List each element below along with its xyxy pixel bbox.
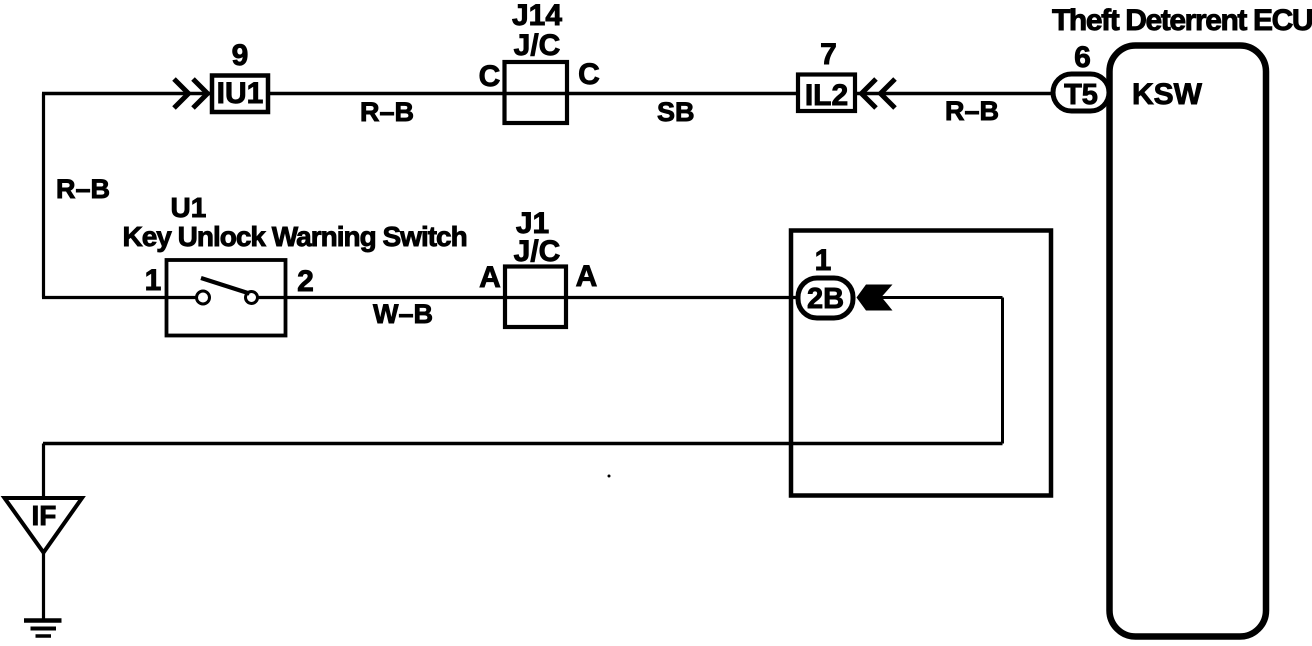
terminal T5 oval — [1053, 74, 1109, 111]
connector J14 J/C box — [505, 0, 568, 123]
wire bottom horizontal y=443 — [43, 442, 1003, 445]
svg-text:C: C — [578, 58, 600, 91]
svg-text:Key Unlock Warning Switch: Key Unlock Warning Switch — [123, 221, 467, 252]
switch lever — [201, 278, 250, 294]
svg-text:J/C: J/C — [514, 235, 561, 268]
connector IU1 box — [212, 76, 268, 113]
ground symbol — [24, 621, 62, 637]
female connector arrow at 2B — [857, 285, 893, 311]
wire middle horizontal W-B from switch pin 2 to 2B — [257, 296, 796, 299]
svg-text:IU1: IU1 — [217, 77, 264, 110]
wire left vertical R-B x=43 — [42, 94, 45, 298]
svg-text:R–B: R–B — [360, 97, 414, 127]
svg-text:R–B: R–B — [56, 174, 110, 204]
connector IL2 box — [798, 75, 855, 113]
shield box around connector 2B — [791, 231, 1051, 496]
svg-text:C: C — [479, 60, 501, 93]
svg-text:1: 1 — [815, 244, 832, 277]
scan speck — [608, 475, 611, 478]
terminal 2B oval — [798, 278, 853, 318]
svg-text:SB: SB — [657, 97, 695, 127]
svg-text:7: 7 — [820, 38, 837, 71]
svg-text:R–B: R–B — [945, 96, 999, 126]
wire middle horizontal into switch pin 1 — [42, 296, 197, 299]
svg-text:Theft Deterrent ECU: Theft Deterrent ECU — [1052, 4, 1312, 37]
wire from 2B arrow to inner corner — [860, 296, 1003, 299]
Theft Deterrent ECU block — [1052, 4, 1312, 637]
svg-text:6: 6 — [1074, 41, 1091, 74]
switch contact left — [197, 291, 210, 304]
svg-text:A: A — [479, 261, 501, 294]
switch U1 Key Unlock Warning Switch — [123, 192, 467, 336]
svg-text:2B: 2B — [807, 283, 844, 315]
wire down-left vertical to IF triangle — [42, 444, 45, 499]
svg-text:U1: U1 — [171, 192, 207, 223]
svg-text:W–B: W–B — [373, 299, 433, 329]
female wire harness arrows out of IL2 — [862, 79, 896, 108]
male wire harness arrows into IU1 — [174, 79, 208, 108]
svg-text:J/C: J/C — [514, 29, 561, 62]
svg-text:1: 1 — [145, 264, 162, 297]
wire triangle apex to ground — [42, 552, 45, 620]
wire top horizontal R-B/SB run y=94 — [42, 92, 1051, 95]
svg-text:IF: IF — [32, 500, 57, 531]
wire inner vertical x=1002 — [1001, 298, 1004, 444]
svg-text:A: A — [576, 260, 598, 293]
svg-text:T5: T5 — [1064, 79, 1098, 111]
ground connection triangle IF — [5, 498, 83, 553]
svg-text:IL2: IL2 — [805, 79, 848, 112]
svg-text:2: 2 — [297, 265, 314, 298]
switch contact right — [246, 292, 258, 304]
svg-text:KSW: KSW — [1132, 78, 1203, 111]
svg-text:9: 9 — [232, 39, 249, 72]
svg-text:J14: J14 — [512, 0, 562, 32]
connector J1 J/C box — [505, 207, 566, 327]
